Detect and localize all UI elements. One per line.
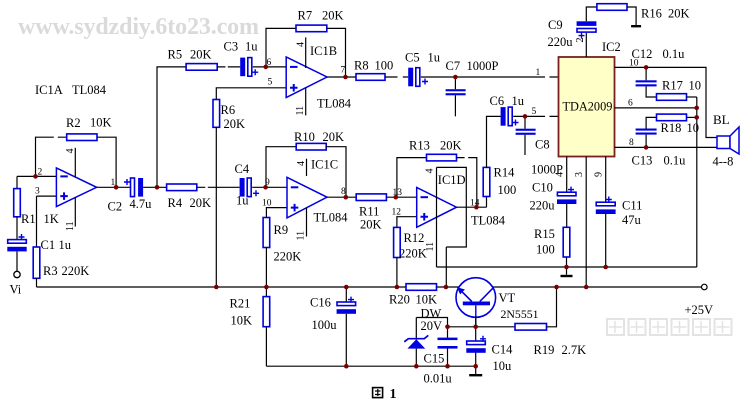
svg-text:C8: C8 (535, 138, 550, 152)
resistor R2 (67, 134, 97, 141)
resistor R18 (657, 114, 687, 121)
svg-text:C9: C9 (548, 18, 563, 32)
TDA pin3 line (585, 157, 587, 288)
svg-text:R2: R2 (66, 116, 81, 130)
wire R2 right down to node1 (97, 137, 116, 187)
svg-text:9: 9 (594, 172, 605, 177)
svg-text:BL: BL (713, 112, 730, 127)
svg-text:11: 11 (296, 231, 307, 241)
svg-text:220u: 220u (530, 199, 556, 213)
svg-text:IC1B: IC1B (310, 44, 337, 58)
svg-text:3: 3 (574, 172, 585, 177)
svg-text:R4: R4 (168, 196, 183, 210)
wire IC1A output (97, 186, 131, 188)
svg-text:Vi: Vi (10, 283, 22, 297)
svg-text:C4: C4 (235, 162, 250, 176)
zener diode DW (415, 318, 417, 340)
svg-text:C6: C6 (490, 94, 505, 108)
svg-text:0.1u: 0.1u (664, 154, 687, 168)
resistor R19 (515, 324, 547, 331)
svg-text:IC1D: IC1D (438, 173, 466, 187)
svg-text:R18: R18 (661, 121, 682, 135)
wire IC1C output (327, 196, 356, 198)
svg-text:R8: R8 (354, 59, 369, 73)
resistor R17 (657, 94, 687, 101)
svg-text:7: 7 (341, 66, 346, 76)
capacitor C10 (557, 192, 576, 196)
svg-text:1u: 1u (245, 40, 258, 54)
svg-text:2: 2 (575, 38, 586, 43)
svg-text:10u: 10u (493, 359, 513, 373)
svg-text:C16: C16 (310, 296, 331, 310)
svg-text:1000P: 1000P (467, 59, 499, 73)
resistor R11 (356, 194, 386, 201)
zener DW bridge wire (416, 318, 447, 338)
caption figure 1 (373, 388, 383, 398)
svg-text:20V: 20V (421, 319, 443, 333)
svg-text:100: 100 (375, 59, 394, 73)
pin4 stub IC1A (74, 148, 76, 177)
wire input node2 row (17, 175, 56, 177)
svg-text:R6: R6 (221, 103, 236, 117)
resistor R5 (186, 64, 217, 71)
wire R12 down to bus (396, 258, 398, 288)
svg-text:1: 1 (390, 387, 397, 400)
svg-text:20K: 20K (190, 196, 212, 210)
svg-text:C5: C5 (405, 51, 420, 65)
svg-text:10: 10 (689, 79, 702, 93)
svg-text:100u: 100u (312, 318, 338, 332)
wire R9 down to bus (265, 248, 267, 288)
svg-text:10K: 10K (416, 293, 438, 307)
svg-text:220K: 220K (62, 264, 90, 278)
svg-text:8: 8 (341, 187, 346, 197)
svg-text:100: 100 (498, 183, 517, 197)
wire C9 to R16 (586, 7, 597, 21)
svg-text:1: 1 (536, 68, 541, 78)
wire IC1D pin12 to R12 (397, 217, 417, 228)
wire R10 right down to node8 (326, 147, 346, 198)
svg-text:R11: R11 (359, 205, 379, 219)
svg-text:4: 4 (296, 161, 307, 166)
wire R8 to C5 (385, 76, 408, 78)
svg-text:4: 4 (65, 149, 76, 154)
svg-text:5: 5 (268, 78, 273, 88)
svg-text:R5: R5 (168, 48, 183, 62)
ground rail wire (437, 266, 697, 268)
svg-text:TL084: TL084 (471, 214, 506, 228)
wire IC1C pin10 to R9 (266, 208, 287, 218)
svg-text:C10: C10 (532, 181, 553, 195)
svg-text:12: 12 (392, 208, 402, 218)
wire node6 up to R7 loop (266, 28, 296, 67)
svg-text:2: 2 (38, 168, 43, 178)
svg-text:C12: C12 (632, 47, 653, 61)
svg-text:4: 4 (555, 172, 566, 177)
svg-text:R12: R12 (404, 231, 425, 245)
svg-text:IC1C: IC1C (311, 158, 338, 172)
capacitor C7 (454, 77, 456, 89)
pin4 stub IC1C (306, 159, 308, 176)
svg-text:R14: R14 (494, 166, 516, 180)
resistor R16 (597, 4, 627, 11)
capacitor C9 (585, 33, 587, 57)
wire node13 up to R13 loop (397, 158, 427, 198)
speaker BL (717, 136, 730, 149)
svg-text:2.7K: 2.7K (562, 343, 587, 357)
transistor Q1 VT (456, 278, 496, 318)
wire R7 right down to node7 (327, 28, 346, 77)
pin4 stub IC1B (305, 37, 307, 68)
svg-text:TL084: TL084 (317, 97, 352, 111)
capacitor C3 (240, 58, 245, 77)
svg-text:3: 3 (35, 187, 40, 197)
wire pin3 (37, 196, 57, 247)
svg-text:20K: 20K (322, 9, 344, 23)
svg-text:0.01u: 0.01u (424, 372, 453, 386)
IC2 TDA2009 body (559, 57, 615, 157)
svg-text:C7: C7 (446, 59, 461, 73)
svg-text:20K: 20K (668, 7, 690, 21)
capacitor C5 (408, 68, 413, 87)
svg-text:10: 10 (262, 199, 272, 209)
resistor R12 (394, 227, 401, 257)
pin11 stub IC1A (74, 198, 76, 227)
wire R18 left to C13 (646, 117, 656, 128)
svg-text:IC1A: IC1A (35, 83, 63, 97)
ground at R15 (566, 267, 568, 275)
resistor R1 (16, 176, 18, 188)
svg-text:2N5551: 2N5551 (501, 307, 539, 321)
svg-text:220K: 220K (399, 247, 427, 261)
capacitor C16 (345, 287, 347, 302)
capacitor C11 (596, 202, 615, 206)
wire C5 to C7 node to TDA pin1 (421, 76, 559, 78)
capacitor C8 (524, 116, 526, 128)
svg-text:C3: C3 (224, 40, 239, 54)
svg-text:C2: C2 (108, 200, 123, 214)
svg-text:TL084: TL084 (72, 83, 107, 97)
svg-text:R1: R1 (21, 212, 36, 226)
IC1D label box routing (437, 167, 467, 287)
svg-text:1u: 1u (236, 194, 249, 208)
svg-text:1: 1 (111, 178, 116, 188)
wire R13 right down to node14 (break at box edge) (457, 158, 477, 208)
ground at R16 (635, 24, 637, 26)
op-amp U1 IC1D (417, 187, 457, 227)
wire IC1D output to R14 (457, 197, 487, 208)
wire base node row (448, 326, 516, 328)
wire R3 to bus (36, 278, 38, 287)
wire R14 top to C6 (487, 116, 501, 167)
svg-text:4: 4 (296, 42, 307, 47)
svg-text:TDA2009: TDA2009 (563, 100, 613, 114)
svg-text:VT: VT (499, 291, 516, 305)
wire C6 to TDA pin5 (513, 115, 558, 117)
svg-text:R21: R21 (230, 297, 251, 311)
capacitor C6 (501, 107, 506, 126)
svg-text:47u: 47u (622, 213, 642, 227)
bottom rail wire (266, 365, 475, 367)
wire VT collector to +25V rail (493, 286, 702, 288)
zobel return vertical (696, 97, 698, 267)
svg-text:6: 6 (628, 98, 633, 108)
svg-text:R7: R7 (298, 9, 313, 23)
wire node9 up to R10 loop (266, 147, 296, 188)
svg-text:R10: R10 (294, 130, 315, 144)
pin11 stub IC1B (305, 87, 307, 115)
wire R11 to IC1D node13 (386, 196, 416, 198)
resistor R14 (483, 167, 490, 196)
capacitor C4 (240, 178, 245, 197)
wire IC1B output (327, 76, 356, 78)
wire R6 down to bus (215, 127, 217, 287)
terminal Vi (16, 251, 18, 271)
wire R20 to VT emitter (437, 286, 459, 288)
wire C4 to IC1C (252, 186, 287, 188)
svg-text:R15: R15 (534, 227, 555, 241)
svg-text:1K: 1K (44, 212, 59, 226)
resistor R20 (406, 284, 437, 291)
resistor R4 (167, 184, 197, 191)
svg-text:0.1u: 0.1u (663, 47, 686, 61)
op-amp U1 IC1A (56, 168, 96, 207)
svg-text:R19: R19 (534, 343, 555, 357)
svg-text:www.sydzdiy.6to23.com: www.sydzdiy.6to23.com (18, 14, 259, 40)
svg-text:R17: R17 (662, 79, 683, 93)
pin11 stub IC1C (306, 208, 308, 237)
resistor R21 (265, 287, 267, 297)
resistor R9 (263, 218, 270, 248)
svg-text:+25V: +25V (685, 303, 714, 317)
wire IC1B pin5 to R6 (216, 88, 286, 100)
svg-text:R3: R3 (43, 264, 58, 278)
svg-text:20K: 20K (190, 48, 212, 62)
capacitor C12 (645, 67, 647, 80)
terminal +25V (702, 284, 708, 290)
svg-text:1u: 1u (512, 94, 525, 108)
svg-text:10: 10 (687, 121, 700, 135)
svg-text:C1: C1 (41, 238, 56, 252)
svg-text:220u: 220u (548, 35, 574, 49)
svg-text:13: 13 (393, 188, 403, 198)
svg-text:4: 4 (425, 169, 436, 174)
wire TDA pin8 to speaker (615, 146, 718, 148)
svg-text:1u: 1u (428, 51, 441, 65)
svg-text:TL084: TL084 (314, 211, 349, 225)
svg-text:R13: R13 (409, 139, 430, 153)
capacitor C13 (636, 129, 657, 131)
resistor R8 (356, 74, 385, 81)
resistor R15 (563, 227, 570, 257)
svg-text:C15: C15 (424, 352, 445, 366)
wire node2 to R2 loop (36, 137, 67, 176)
capacitor C1 (16, 217, 18, 240)
wire R18 right (687, 116, 697, 118)
svg-text:R16: R16 (641, 7, 662, 21)
capacitor C14 (475, 327, 477, 341)
svg-text:IC2: IC2 (602, 40, 621, 54)
svg-text:R20: R20 (389, 293, 410, 307)
svg-text:11: 11 (295, 106, 306, 116)
svg-text:R9: R9 (274, 223, 289, 237)
svg-text:1u: 1u (59, 238, 72, 252)
svg-text:10K: 10K (90, 116, 112, 130)
svg-text:6: 6 (267, 58, 272, 68)
wire R16 to ground (627, 7, 636, 25)
svg-text:220K: 220K (274, 250, 302, 264)
wire node up to R5 (157, 67, 186, 187)
ground below C14 (475, 373, 477, 375)
wire C2 to R4, node (143, 186, 167, 188)
op-amp U1 IC1C (287, 177, 327, 218)
wire R19 up to +25V (547, 287, 557, 327)
resistor R10 (296, 143, 326, 150)
wire R15 to ground rail (566, 257, 568, 267)
svg-text:20K: 20K (323, 130, 345, 144)
wire R17 right (687, 96, 697, 98)
svg-text:5: 5 (532, 107, 537, 117)
svg-text:11: 11 (65, 221, 76, 231)
svg-text:20K: 20K (360, 218, 382, 232)
wire C3 to IC1B node6 (253, 66, 286, 68)
op-amp U1 IC1B (286, 57, 327, 98)
wire R4 to C4 (break at crossing) (197, 186, 240, 188)
resistor R13 (427, 154, 457, 161)
svg-text:C11: C11 (622, 199, 642, 213)
svg-text:9: 9 (265, 178, 270, 188)
svg-text:C13: C13 (632, 154, 653, 168)
bias bus wire (37, 286, 407, 288)
junction dots (33, 174, 38, 179)
resistor R7 (296, 25, 327, 32)
wire TDA pin6 (615, 107, 697, 109)
TDA bottom pin C10 line (566, 157, 568, 193)
svg-text:10K: 10K (231, 314, 253, 328)
capacitor C2 (131, 178, 135, 197)
svg-text:8: 8 (629, 138, 634, 148)
svg-text:4.7u: 4.7u (130, 197, 153, 211)
wire TDA pin10 to speaker (615, 67, 718, 137)
polarity marks (19, 234, 25, 240)
wire R5 to C3 (217, 66, 240, 68)
svg-text:20K: 20K (440, 139, 462, 153)
capacitor C15 (438, 338, 458, 341)
watermark bottom-right (607, 319, 732, 335)
TDA pin9 line to C11 (605, 157, 607, 203)
pins 4-11 line IC1D (436, 167, 438, 267)
svg-text:100: 100 (536, 243, 555, 257)
svg-text:4--8: 4--8 (713, 155, 734, 169)
svg-text:20K: 20K (224, 117, 246, 131)
resistor R6 (213, 100, 220, 128)
svg-text:C14: C14 (492, 343, 514, 357)
resistor R3 (33, 247, 40, 278)
svg-text:14: 14 (470, 199, 480, 209)
wire VT base down to node (475, 305, 477, 327)
